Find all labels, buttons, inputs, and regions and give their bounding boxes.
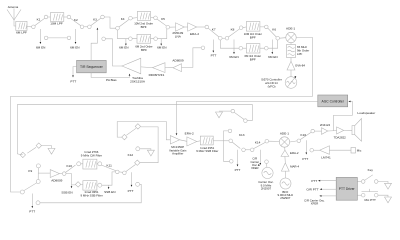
- wire SSB filter 2 out to K13: [213, 140, 229, 142]
- amplifier U2 MC1350P VGA: [170, 136, 179, 144]
- svg-text:K4: K4: [121, 17, 125, 21]
- svg-text:PTT: PTT: [29, 209, 35, 213]
- svg-text:6M EN: 6M EN: [70, 45, 79, 49]
- switch K11 pole: [116, 170, 120, 174]
- wire VGA to ERA-2: [180, 140, 187, 142]
- svg-text:AGC Controller: AGC Controller: [322, 99, 345, 103]
- svg-text:K6: K6: [272, 27, 276, 31]
- antenna: [7, 9, 21, 27]
- 6M EN control arrow left: [125, 39, 127, 44]
- svg-text:6M EN: 6M EN: [119, 45, 128, 49]
- wire mic to LM741: [329, 149, 351, 151]
- SSB EN control arrow left: [71, 185, 73, 187]
- L-wire K5 pole down to 6M 2nd BPF: [157, 29, 166, 39]
- filter FL1 6M LPF: [16, 21, 27, 30]
- wire T/R sequencer to antenna relay (up arrow): [91, 29, 97, 60]
- K1 bypass lower throw: [44, 36, 48, 40]
- svg-text:6M LPF: 6M LPF: [16, 31, 27, 35]
- svg-text:6M EN: 6M EN: [36, 45, 45, 49]
- amplifier ERA-2 LO: [281, 150, 289, 156]
- switch K16 lever: [300, 132, 311, 139]
- wire AD8009 to RD06HVF1: [165, 67, 173, 69]
- wire mixer U1 to 65MHz LPF: [290, 43, 292, 45]
- switch AGC mute pole (diamond): [17, 152, 25, 157]
- switch K14 pole: [250, 148, 254, 152]
- upper transfer switch throw (diamond): [135, 124, 140, 129]
- svg-text:Amplifier: Amplifier: [172, 152, 183, 156]
- C/R Carrier Osc XFER output wire: [321, 195, 336, 197]
- switch K8 lever: [228, 29, 239, 37]
- switch K2 lever: [70, 18, 80, 25]
- L-wire K4 pole down to 6M 2nd BPF: [118, 30, 129, 39]
- switch RX mute throw: [231, 109, 235, 113]
- wire BPF out to K5 throw: [151, 17, 154, 19]
- switch K5 pole: [166, 25, 170, 29]
- filter FL2 10M LPF: [50, 13, 63, 22]
- mixer U3 ADE-1 product det / bal mod: [279, 137, 289, 147]
- switch Key lever: [365, 175, 373, 181]
- PTT control arrow at K7: [212, 40, 214, 52]
- wire contact to carrier osc: [266, 164, 268, 168]
- switch K3 lever: [91, 18, 101, 26]
- svg-text:(VFO): (VFO): [268, 84, 276, 88]
- switch K12 lever: [126, 165, 136, 172]
- ground at AGC mute: [48, 148, 55, 154]
- svg-text:Antenna: Antenna: [8, 5, 19, 9]
- upper transfer switch pole (diamond): [122, 134, 127, 139]
- ground at Key: [385, 183, 392, 189]
- amplifier Q3 2N4124 audio preamp: [322, 128, 328, 135]
- wire K3 RX throw jog to K4 pole: [104, 17, 115, 28]
- wire AD8009 to K10 pole: [60, 173, 63, 175]
- switch K7 TX throw: [201, 46, 205, 50]
- switch K14 throw: [265, 139, 269, 143]
- svg-text:2SK1310A: 2SK1310A: [130, 79, 146, 83]
- L-wire K7 pole down to 6M 3rd BPF: [220, 40, 239, 48]
- svg-text:XFER: XFER: [251, 166, 258, 170]
- wire SSB filter out up to K11 pole line: [81, 172, 116, 185]
- switch K11 lever: [101, 165, 116, 171]
- switch K9 pole: [20, 190, 24, 194]
- filter FL9 Inrad #351 SSB: [83, 181, 97, 190]
- wire W2 AGC/mute line: [17, 105, 252, 154]
- switch K13 pole: [229, 139, 233, 143]
- wire bypass between K1 and K2 lower throws: [48, 37, 67, 39]
- wire K1 throw to 10M LPF: [48, 16, 51, 18]
- svg-text:O/R PTT: O/R PTT: [306, 187, 318, 191]
- amplifier GVA-84 (LO buffer): [287, 61, 295, 70]
- svg-text:AD8009: AD8009: [51, 179, 62, 183]
- wire pole stub to bridge: [117, 122, 122, 138]
- wire preamp to TDA2822: [328, 130, 337, 132]
- amplifier AD8009 IF amp: [50, 170, 59, 178]
- filter FL8 Inrad #766 CW: [83, 159, 97, 169]
- switch K9 lever: [24, 183, 37, 191]
- PTT input arrow to T/R sequencer: [73, 67, 77, 76]
- svg-text:K16: K16: [301, 133, 307, 137]
- switch K10 lever: [66, 165, 76, 172]
- svg-text:SSB EN: SSB EN: [61, 190, 72, 194]
- switch K7 lever: [208, 28, 219, 37]
- upper transfer switch lever: [126, 128, 136, 135]
- O/R PTT output wire: [322, 188, 337, 190]
- svg-text:XFER: XFER: [311, 202, 318, 206]
- switch K1 upper throw: [44, 15, 48, 19]
- VFO tuning arrowhead: [294, 76, 296, 78]
- wire LM741 out to K16 mic throw: [314, 149, 320, 151]
- switch K9 upper stub contact: [36, 164, 40, 168]
- PTT control arrow at K13/K14: [237, 150, 239, 165]
- switch K3 upper throw (RX): [101, 15, 105, 19]
- wire K11 pole to K12 pole: [119, 171, 123, 173]
- svg-text:PTT: PTT: [211, 53, 217, 57]
- switch K1 lever: [35, 18, 45, 25]
- svg-text:ERA-2: ERA-2: [290, 151, 299, 155]
- wire TX injection branch: [224, 131, 230, 161]
- switch K3 lower throw (TX from PA): [102, 37, 106, 41]
- SSB filter right terminal: [98, 183, 102, 187]
- switch K8 pole: [225, 36, 229, 40]
- svg-text:K2: K2: [74, 18, 78, 22]
- amplifier Q1 Toshiba 2SK1310A PA: [122, 58, 141, 74]
- svg-text:K11: K11: [107, 164, 113, 168]
- switch K4 pole: [116, 26, 120, 30]
- svg-text:K7: K7: [212, 27, 216, 31]
- switch K5 lever: [157, 19, 166, 26]
- svg-text:PA Bias: PA Bias: [106, 78, 117, 82]
- 6M 2nd BPF right terminal: [154, 37, 158, 41]
- svg-text:2N2907: 2N2907: [280, 196, 291, 200]
- svg-text:LM741: LM741: [321, 156, 331, 160]
- svg-text:ERA-2: ERA-2: [185, 131, 194, 135]
- svg-text:LPF: LPF: [297, 52, 303, 56]
- wire GVA-84 to VFO: [290, 70, 292, 77]
- wire PTT driver to key switch: [357, 181, 361, 183]
- svg-text:BPF: BPF: [141, 25, 147, 29]
- svg-text:PTT: PTT: [235, 168, 241, 172]
- svg-text:PTT: PTT: [302, 157, 308, 161]
- svg-text:TDA2822: TDA2822: [334, 135, 347, 139]
- switch K12 RX throw (diamond): [135, 160, 140, 165]
- ground at VGA mute: [147, 150, 154, 156]
- svg-text:K5: K5: [161, 17, 165, 21]
- svg-text:9 MHz SSB Filter: 9 MHz SSB Filter: [196, 149, 218, 153]
- switch K16 pole: [297, 139, 301, 143]
- amplifier ERA-2: [188, 23, 197, 31]
- switch K6 pole: [276, 36, 280, 40]
- wire K2 pole to K3 pole: [84, 26, 88, 28]
- 6M 3rd BPF left terminal: [239, 46, 243, 50]
- svg-text:Mic: Mic: [357, 149, 362, 153]
- switch K9 TX throw: [36, 201, 40, 205]
- ground at Mic PTT: [385, 197, 392, 203]
- svg-text:ERA-2: ERA-2: [190, 32, 199, 36]
- amplifier U4 TDA2822: [337, 127, 344, 134]
- wire ERA-2 to MAR-4: [284, 156, 286, 163]
- wire TX IF line to modulator switch: [40, 184, 141, 203]
- wire K14 throw to mixer U3: [269, 140, 280, 142]
- 6M EN control arrow right: [271, 40, 273, 53]
- oscillator BFO: [280, 178, 291, 189]
- PTT control arrow at K16: [305, 140, 307, 153]
- K2 bypass lower throw: [67, 36, 71, 40]
- wire K5 pole to LNA: [170, 26, 176, 28]
- wire key to ground: [378, 182, 388, 184]
- amplifier MAR-4: [281, 163, 289, 171]
- filter FL4 6M 2nd Order BPF: [137, 34, 151, 43]
- switch K10 pole: [62, 172, 66, 176]
- PTT control arrow at K9: [31, 194, 33, 207]
- SSB EN control arrow right: [108, 185, 110, 187]
- wire K4 throw to 10M 2nd BPF: [132, 17, 137, 20]
- amplifier U5 LM741 mic amp: [320, 146, 330, 155]
- wire K7 pole to K8 pole: [222, 37, 225, 39]
- wire K9 stub down to RX contact: [37, 168, 39, 180]
- wire TDA2822 to loudspeaker: [344, 129, 352, 131]
- switch K4 lever: [119, 19, 129, 27]
- switch K5 upper throw: [154, 16, 158, 20]
- oscillator Carrier Osc: [262, 167, 273, 178]
- wire bridge to VGA input: [117, 122, 170, 140]
- loudspeaker: [352, 119, 362, 142]
- svg-text:ADE-1: ADE-1: [280, 132, 289, 136]
- svg-text:K13: K13: [239, 133, 245, 137]
- L-wire K10 pole down to SSB filter: [66, 174, 75, 185]
- switch Mic PTT contact B: [374, 193, 378, 197]
- switch K3 pole: [88, 25, 92, 29]
- wire LPF to GVA-84: [290, 58, 292, 62]
- wire AD8009 input tap: [38, 172, 50, 174]
- switch Mic PTT pushbutton bar: [362, 189, 379, 192]
- 6M 3rd BPF right terminal: [265, 46, 269, 50]
- switch K12 pole: [123, 171, 127, 175]
- wire PA out up to K3 TX throw: [105, 39, 122, 66]
- 10M 3rd BPF left terminal: [239, 26, 243, 30]
- switch K2 upper throw: [67, 15, 71, 19]
- mixer U1 ADE-1: [286, 32, 296, 42]
- switch K2 pole: [80, 25, 84, 29]
- upper mute contact: [136, 147, 140, 151]
- PTT control arrow at K12: [131, 172, 133, 185]
- switch K6 lever: [268, 28, 277, 37]
- SSB filter left terminal (diamond): [75, 182, 80, 187]
- svg-text:Loudspeaker: Loudspeaker: [357, 111, 375, 115]
- wire pole pair: [245, 149, 250, 151]
- L-wire K6 pole down to 6M 3rd BPF: [268, 40, 278, 48]
- svg-text:K8: K8: [231, 27, 235, 31]
- Mic jack: [351, 148, 356, 154]
- switch K13 upper throw: [228, 129, 232, 133]
- switch K13 lever: [232, 142, 240, 149]
- wire W1 mixer IF out, down right side to 9MHz IF section: [11, 38, 313, 193]
- svg-text:MAR-4: MAR-4: [290, 164, 299, 168]
- filter FL6 6M 3rd Order BPF: [246, 44, 260, 53]
- 6M EN control arrow mid: [233, 40, 235, 53]
- TX injection contact: [230, 160, 234, 164]
- svg-text:K10: K10: [66, 164, 72, 168]
- svg-text:9 MHz CW Filter: 9 MHz CW Filter: [81, 153, 102, 157]
- svg-text:6M EN: 6M EN: [229, 55, 238, 59]
- svg-text:K1: K1: [37, 18, 41, 22]
- wire mic ptt to ground: [378, 195, 388, 197]
- AGC Controller module: [318, 95, 348, 107]
- svg-text:9 MHz SSB Filter: 9 MHz SSB Filter: [81, 193, 103, 197]
- 10M 3rd BPF right terminal: [265, 25, 269, 29]
- wire mute throw to ground: [219, 110, 231, 112]
- wire 10M LPF out to K2 throw: [64, 16, 67, 18]
- switch Key contact A: [361, 180, 365, 184]
- wire ERA-2 to SSB filter 2: [197, 140, 201, 143]
- svg-text:BPF: BPF: [250, 57, 256, 61]
- wire MAR-4 to BFO: [284, 171, 286, 178]
- CW filter left terminal: [77, 162, 81, 166]
- svg-text:6M EN: 6M EN: [157, 45, 166, 49]
- amplifier Q2 RD06HVF1: [153, 63, 166, 73]
- wire K6 pole to mixer U1: [280, 37, 286, 40]
- wire TX throw to PA driver: [182, 48, 202, 68]
- PA Bias control wire: [91, 73, 129, 78]
- switch K16 lower throw (mic): [310, 148, 314, 152]
- switch K7 pole: [219, 36, 223, 40]
- wire RD06HVF1 to PA: [141, 66, 153, 69]
- switch K1 pole: [32, 25, 36, 29]
- filter FL5 10M 3rd Order BPF: [246, 22, 260, 32]
- svg-text:GVA-84: GVA-84: [295, 64, 305, 68]
- wires CW filter terminals: [81, 163, 98, 165]
- CW filter right terminal: [98, 162, 102, 166]
- wire diamond throw to ground: [42, 146, 52, 149]
- svg-text:PTT: PTT: [128, 189, 134, 193]
- oscillator Si570 VFO: [285, 77, 297, 89]
- svg-text:RD06HVF1: RD06HVF1: [149, 73, 165, 77]
- svg-text:BPF: BPF: [141, 48, 147, 52]
- PTT Driver module: [336, 177, 357, 200]
- filter FL10 Inrad #351 SSB 2: [200, 136, 213, 145]
- switch AGC mute lever: [27, 147, 36, 153]
- wire mixer U3 LO port: [284, 147, 286, 150]
- wire mute contact to ground: [140, 149, 151, 150]
- wire carrier osc transfer tap: [259, 150, 261, 164]
- wire RX throw up to VGA switch: [140, 127, 158, 163]
- wire 6M LPF out to K1 pole: [27, 26, 32, 28]
- svg-text:PTT: PTT: [311, 179, 317, 183]
- switch RX mute lever: [234, 112, 244, 119]
- svg-text:SSB EN: SSB EN: [104, 190, 115, 194]
- switch K14 lever: [254, 142, 266, 148]
- svg-text:T/R Sequencer: T/R Sequencer: [80, 65, 104, 69]
- svg-text:K3: K3: [93, 17, 97, 21]
- svg-text:6M EN: 6M EN: [268, 55, 277, 59]
- amplifier 2N5109 LNA: [176, 23, 185, 31]
- amplifier ERA-2 IF: [187, 137, 197, 146]
- svg-text:ADE-1: ADE-1: [286, 27, 295, 31]
- T/R Sequencer module: [77, 60, 107, 72]
- switch K13 pole pair contact: [242, 148, 246, 152]
- 6M EN control arrow at K2: [75, 29, 77, 43]
- wire LNA to ERA-2: [184, 26, 187, 28]
- wire PTT driver to mic ptt switch: [357, 194, 361, 196]
- svg-text:2N2907: 2N2907: [261, 187, 272, 191]
- wires 10M 3rd BPF terminals: [243, 26, 265, 29]
- wire W3 AGC control to VGA: [177, 101, 318, 133]
- svg-text:10M LPF: 10M LPF: [50, 21, 63, 25]
- arrowhead into AGC controller: [348, 101, 350, 103]
- wire audio to AGC detector input: [333, 101, 352, 130]
- switch K9 RX throw: [36, 180, 40, 184]
- switch K4 upper throw: [129, 16, 133, 20]
- svg-text:K9: K9: [28, 169, 32, 173]
- switch RX mute pole: [244, 119, 248, 123]
- svg-text:PTT: PTT: [70, 80, 76, 84]
- svg-text:LNA: LNA: [175, 35, 182, 39]
- switch Mic PTT contact A: [361, 193, 365, 197]
- svg-text:Mic PTT: Mic PTT: [364, 198, 376, 202]
- AGC arrowhead into VGA: [176, 133, 178, 135]
- PTT output wire: [320, 180, 336, 182]
- switch K16 upper throw (audio): [311, 129, 315, 133]
- switch K7 upper throw: [205, 25, 209, 29]
- wire 6M 2nd BPF terminals: [132, 38, 154, 40]
- ground at RX mute: [216, 112, 223, 118]
- amplifier AD8009 TX driver: [173, 64, 182, 72]
- 6M 2nd BPF left terminal: [129, 37, 133, 41]
- filter FL3 10M 2nd Order BPF: [137, 12, 150, 21]
- svg-text:PTT Driver: PTT Driver: [339, 187, 356, 191]
- wire ERA-2 to K7 throw: [197, 26, 205, 28]
- switch K12 TX throw contact: [136, 182, 140, 186]
- 6M EN control arrow right: [160, 39, 162, 44]
- switch Key contact B: [374, 180, 378, 184]
- svg-text:K14: K14: [255, 140, 261, 144]
- svg-text:K12: K12: [128, 153, 134, 157]
- wire K16 to audio amp: [315, 130, 322, 132]
- transfer contact circle: [265, 160, 269, 164]
- switch AGC mute throw (diamond): [36, 143, 41, 148]
- svg-text:BPF: BPF: [250, 35, 256, 39]
- svg-text:Key: Key: [368, 168, 374, 172]
- wires 6M 3rd BPF terminals: [243, 47, 265, 49]
- 6M EN control arrow at K1: [39, 29, 41, 43]
- svg-text:2N4124: 2N4124: [320, 123, 331, 127]
- svg-text:AD8009: AD8009: [172, 58, 183, 62]
- filter FL7 65 MHz 9th Order LPF: [287, 45, 296, 58]
- wire mixer U3 out to K16: [290, 141, 297, 142]
